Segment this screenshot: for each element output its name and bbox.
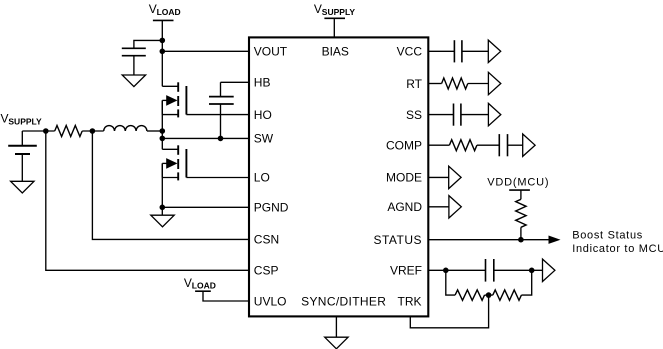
- wire STATUS net: [429, 239, 559, 241]
- svg-text:BIAS: BIAS: [322, 45, 349, 59]
- node junction dot CSN tap: [90, 128, 96, 134]
- node junction dot VREF left: [443, 268, 449, 274]
- capacitor CVREF: [486, 259, 494, 282]
- svg-text:MODE: MODE: [386, 171, 422, 185]
- node junction dot HB-SW: [218, 136, 224, 142]
- node VLOAD top bar: [153, 19, 174, 21]
- wire HB pin: [221, 81, 250, 83]
- ground COMP triangle: [523, 134, 535, 156]
- resistor Rfb2: [493, 290, 522, 300]
- resistor Rpullup: [516, 199, 526, 227]
- text Boost Status annotation: [572, 230, 663, 255]
- svg-text:V: V: [314, 2, 322, 16]
- svg-text:UVLO: UVLO: [254, 294, 287, 308]
- wire VCC pin: [429, 50, 455, 52]
- ground COUT: [122, 75, 145, 87]
- op-amp U1 controller IC body: [249, 37, 428, 316]
- svg-text:HO: HO: [254, 108, 272, 122]
- capacitor COUT: [122, 48, 146, 55]
- wire RT pin: [429, 83, 442, 85]
- wire LO pin: [186, 177, 249, 179]
- ground SYNC/DITHER: [325, 337, 348, 349]
- svg-text:VREF: VREF: [390, 264, 422, 278]
- svg-text:CSN: CSN: [254, 233, 279, 247]
- svg-text:SS: SS: [406, 108, 422, 122]
- wire SS pin: [429, 114, 454, 116]
- inductor L1: [104, 126, 147, 131]
- node junction dot SW-L1: [160, 128, 166, 134]
- wire supply rail: [22, 130, 54, 132]
- wire CSS to gnd: [461, 114, 489, 116]
- ground VSUPPLY: [11, 181, 34, 193]
- svg-text:LO: LO: [254, 171, 270, 185]
- wire SW vertical: [161, 100, 163, 149]
- svg-text:Boost Status: Boost Status: [572, 230, 643, 242]
- capacitor CSS: [454, 104, 461, 126]
- svg-text:TRK: TRK: [398, 294, 422, 308]
- node junction dot divider center: [486, 292, 492, 298]
- wire VLOAD stub down: [161, 20, 163, 86]
- node junction dot CSP tap: [43, 128, 49, 134]
- wire HB cap stub: [220, 82, 222, 96]
- node VSUPPLY BIAS label: [314, 2, 355, 17]
- ground AGND triangle: [449, 196, 461, 218]
- svg-text:LOAD: LOAD: [157, 7, 181, 17]
- transistor Q2 low-side MOSFET: [162, 145, 186, 180]
- wire SW pin: [162, 137, 249, 139]
- wire AGND pin: [429, 206, 449, 208]
- svg-text:V: V: [1, 111, 9, 125]
- wire CVREF to dot2: [494, 269, 543, 271]
- node junction dot STATUS: [518, 237, 524, 243]
- resistor Rfb1: [455, 290, 484, 300]
- node junction dot PGND: [160, 205, 166, 211]
- svg-text:VDD(MCU): VDD(MCU): [487, 176, 549, 188]
- node junction dot output cap: [160, 38, 166, 44]
- svg-text:RT: RT: [406, 77, 422, 91]
- wire CSN net: [92, 131, 249, 239]
- wire COMP pin: [429, 144, 450, 146]
- svg-text:SYNC/DITHER: SYNC/DITHER: [301, 294, 386, 308]
- wire L1 to SW node: [147, 130, 162, 132]
- wire Rpullup to STATUS: [520, 227, 522, 239]
- wire COUT to ground: [133, 56, 135, 75]
- wire Rsense to L1: [82, 130, 104, 132]
- wire VOUT pin: [162, 50, 249, 52]
- svg-text:COMP: COMP: [386, 139, 422, 153]
- svg-text:HB: HB: [254, 76, 271, 90]
- svg-text:SUPPLY: SUPPLY: [8, 117, 42, 127]
- wire UVLO pin: [203, 291, 249, 301]
- node VSUPPLY BIAS bar: [324, 17, 345, 19]
- node VSUPPLY left label: [1, 111, 42, 126]
- node VLOAD UVLO label: [184, 276, 216, 291]
- svg-text:V: V: [184, 276, 192, 290]
- wire CCOMP to gnd: [508, 144, 523, 146]
- svg-text:SW: SW: [254, 132, 274, 146]
- wire RT to gnd: [468, 83, 489, 85]
- wire VREF divider left leg: [446, 270, 455, 295]
- wire RCOMP to CCOMP: [477, 144, 499, 146]
- ground SS triangle: [488, 103, 500, 125]
- svg-text:LOAD: LOAD: [192, 280, 216, 290]
- battery VSUPPLY source: [8, 131, 37, 181]
- wire CSP net: [46, 131, 249, 270]
- wire TRK net: [410, 295, 488, 328]
- svg-text:STATUS: STATUS: [373, 233, 422, 247]
- wire MODE pin: [429, 176, 449, 178]
- svg-text:V: V: [149, 2, 157, 16]
- wire output cap branch: [134, 40, 162, 48]
- node VDD(MCU) bar: [509, 189, 530, 191]
- svg-text:SUPPLY: SUPPLY: [322, 7, 356, 17]
- wire HO pin: [186, 114, 249, 116]
- ground RT triangle: [488, 72, 500, 94]
- resistor RCOMP: [449, 140, 477, 151]
- node junction dot VOUT: [160, 49, 166, 55]
- ground VCC triangle: [488, 40, 500, 62]
- wire BIAS pin: [333, 18, 335, 37]
- wire CVCC to gnd: [462, 50, 488, 52]
- wire SYNC/DITHER stub: [335, 316, 337, 337]
- svg-text:VCC: VCC: [397, 45, 423, 59]
- wire PGND pin: [162, 206, 249, 208]
- arrowhead STATUS to MCU: [549, 236, 561, 244]
- node VLOAD top label: [149, 2, 181, 17]
- wire VREF pin: [429, 269, 486, 271]
- transistor Q1 high-side MOSFET: [162, 82, 186, 117]
- svg-text:AGND: AGND: [387, 200, 422, 214]
- ground PGND: [151, 215, 174, 227]
- node junction dot VREF right: [529, 268, 535, 274]
- wire HB cap to SW: [220, 104, 222, 138]
- wire Rfb1 to Rfb2: [485, 294, 493, 296]
- ground MODE triangle: [449, 166, 461, 188]
- capacitor CVCC: [454, 40, 462, 62]
- svg-text:VOUT: VOUT: [254, 45, 288, 59]
- wire VDD bar to resistor: [520, 190, 522, 199]
- resistor RT: [442, 78, 468, 89]
- node junction dot SW pin: [160, 136, 166, 142]
- ground VREF triangle: [543, 259, 555, 281]
- node VLOAD UVLO bar: [195, 290, 211, 292]
- resistor Rsense: [55, 126, 82, 137]
- svg-text:PGND: PGND: [254, 201, 289, 215]
- wire Rfb2 to right leg: [521, 270, 531, 295]
- capacitor CHB: [209, 97, 234, 104]
- svg-text:Indicator to MCU: Indicator to MCU: [572, 243, 663, 255]
- svg-text:CSP: CSP: [254, 264, 279, 278]
- wire Q2 source to PGND: [161, 163, 163, 215]
- capacitor CCOMP: [499, 134, 507, 156]
